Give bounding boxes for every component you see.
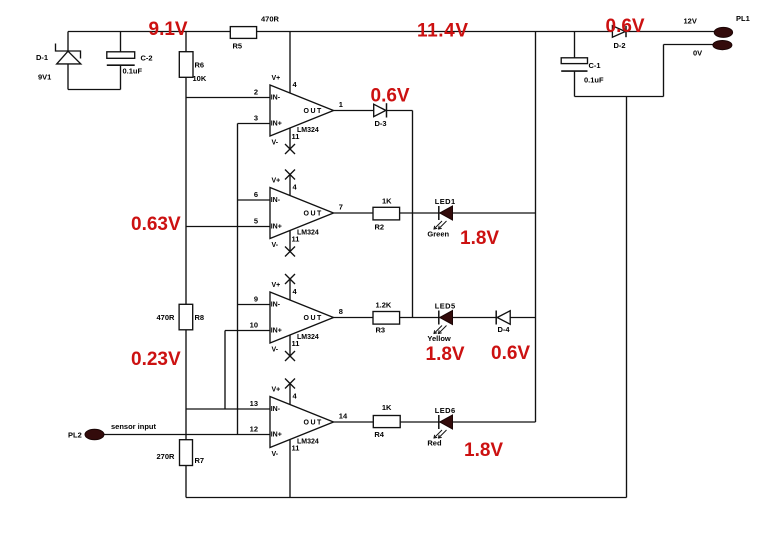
svg-text:0.6V: 0.6V (491, 343, 530, 364)
op-amp U1 unit 3 LM324 (270, 292, 334, 343)
wire sensor to pin 9 (238, 304, 271, 306)
wire zener to C2 bottom (68, 89, 121, 91)
no-connect X op3 pin11 (285, 351, 295, 361)
wire top supply rail 11.4V (68, 31, 714, 33)
svg-text:1K: 1K (382, 197, 392, 206)
svg-text:12: 12 (250, 425, 258, 434)
no-connect X op1 pin11 (285, 144, 295, 154)
svg-text:Yellow: Yellow (427, 334, 451, 343)
svg-text:7: 7 (339, 203, 343, 212)
svg-text:1: 1 (339, 100, 343, 109)
svg-text:0.1uF: 0.1uF (123, 67, 143, 76)
svg-text:IN+: IN+ (271, 121, 282, 128)
svg-text:LED5: LED5 (435, 302, 456, 311)
svg-text:0.1uF: 0.1uF (584, 76, 604, 85)
svg-text:OUT: OUT (304, 211, 323, 218)
resistor R2 1K (373, 207, 400, 220)
svg-text:3: 3 (254, 114, 258, 123)
wire 0V to PL1 pin (664, 44, 714, 46)
svg-text:IN-: IN- (271, 95, 281, 102)
wire ground vertical (626, 97, 628, 498)
svg-text:5: 5 (254, 217, 258, 226)
wire pin10 link vertical (224, 331, 226, 410)
resistor R8 470R (179, 304, 193, 330)
wire node 0.23V to pin 10 (225, 330, 270, 332)
wire row4 op4 out to LED rail (334, 421, 536, 423)
svg-text:6: 6 (254, 190, 258, 199)
wire sensor vertical bus (237, 124, 239, 435)
svg-text:LM324: LM324 (297, 439, 319, 446)
diode D-2 triangle (612, 26, 625, 37)
resistor R5 470R (230, 27, 256, 39)
svg-text:11: 11 (292, 339, 300, 348)
wire sensor input to pin 12 (104, 434, 270, 436)
svg-text:LM324: LM324 (297, 334, 319, 341)
capacitor C-2 bottom plate (107, 64, 135, 66)
svg-text:R8: R8 (195, 313, 205, 322)
svg-text:1K: 1K (382, 403, 392, 412)
svg-text:Red: Red (427, 439, 442, 448)
svg-text:IN+: IN+ (271, 432, 282, 439)
svg-text:0.6V: 0.6V (371, 86, 410, 107)
resistor R4 1K (373, 416, 400, 428)
wire LED anode rail (535, 32, 537, 423)
svg-text:R4: R4 (374, 430, 384, 439)
svg-text:11: 11 (292, 444, 300, 453)
diode D-3 cathode bar (386, 103, 388, 117)
wire node 0.63V to pin 5 (186, 226, 270, 228)
svg-text:D-4: D-4 (498, 325, 511, 334)
no-connect X op2 pin11 (285, 247, 295, 257)
svg-text:IN-: IN- (271, 302, 281, 309)
LED1 green (434, 206, 453, 229)
svg-text:R7: R7 (195, 456, 205, 465)
wire D3 drop vertical (412, 111, 414, 318)
wire C2 bottom riser (120, 65, 122, 89)
wire 0V horizontal below C1 (575, 96, 664, 98)
op-amp U1 unit 1 LM324 (270, 85, 334, 136)
svg-text:LM324: LM324 (297, 127, 319, 134)
svg-text:V-: V- (272, 451, 279, 458)
no-connect X op4 pin4 (285, 379, 295, 389)
svg-text:IN-: IN- (271, 406, 281, 413)
svg-text:V+: V+ (272, 178, 281, 185)
wire sensor to pin 3 (238, 123, 271, 125)
svg-text:R6: R6 (195, 61, 205, 70)
svg-text:470R: 470R (261, 15, 280, 24)
svg-text:LM324: LM324 (297, 230, 319, 237)
svg-text:1.2K: 1.2K (376, 301, 392, 310)
wire divider R6 to R8 (185, 77, 187, 304)
svg-text:13: 13 (250, 399, 258, 408)
wire op1 out to D3 (334, 110, 374, 112)
wire op3 pin4 stub (289, 279, 291, 300)
svg-text:V-: V- (272, 242, 279, 249)
wire 0V riser (663, 45, 665, 97)
svg-text:V+: V+ (272, 75, 281, 82)
capacitor C-2 top plate (107, 52, 135, 59)
svg-text:OUT: OUT (304, 315, 323, 322)
svg-text:sensor input: sensor input (111, 422, 157, 431)
no-connect X op3 pin4 (285, 274, 295, 284)
svg-text:Green: Green (427, 230, 449, 239)
svg-text:10K: 10K (193, 74, 207, 83)
svg-text:LED1: LED1 (435, 197, 456, 206)
svg-text:IN-: IN- (271, 197, 281, 204)
svg-text:1.8V: 1.8V (464, 440, 503, 461)
svg-text:8: 8 (339, 307, 343, 316)
wire rail to C1 (574, 32, 576, 58)
connector PL1 12V pin (714, 27, 732, 37)
op-amp U1 unit 4 LM324 (270, 397, 334, 448)
svg-text:C-2: C-2 (141, 54, 153, 63)
wire C1 bottom drop (574, 71, 576, 96)
svg-text:0.23V: 0.23V (131, 349, 181, 370)
svg-text:LED6: LED6 (435, 406, 456, 415)
svg-text:0.6V: 0.6V (606, 16, 645, 37)
svg-text:1.8V: 1.8V (426, 344, 465, 365)
svg-text:10: 10 (250, 321, 258, 330)
svg-text:PL2: PL2 (68, 431, 82, 440)
resistor R6 10K (179, 52, 193, 78)
svg-text:R5: R5 (233, 42, 243, 51)
svg-text:PL1: PL1 (736, 14, 750, 23)
wire op4 pin4 stub (289, 384, 291, 405)
svg-text:OUT: OUT (304, 108, 323, 115)
svg-text:D-2: D-2 (614, 41, 626, 50)
wire R7 to ground rail (185, 466, 187, 498)
svg-text:C-1: C-1 (589, 61, 601, 70)
svg-text:IN+: IN+ (271, 224, 282, 231)
wire C2 top riser (120, 32, 122, 53)
svg-text:1.8V: 1.8V (460, 228, 499, 249)
svg-text:R2: R2 (375, 223, 385, 232)
svg-text:D-3: D-3 (375, 119, 387, 128)
no-connect X op2 pin4 (285, 170, 295, 180)
wire op2 pin4 stub (289, 175, 291, 196)
zener D-1 triangle (57, 51, 81, 64)
svg-text:R3: R3 (376, 326, 386, 335)
wire divider R8 to R7 (185, 330, 187, 440)
wire rail to R6 (185, 32, 187, 52)
connector PL1 0V pin (713, 41, 732, 50)
diode D-3 triangle (374, 104, 386, 116)
wire D3 to drop corner (387, 110, 413, 112)
zener diode D-1 9V1 (56, 44, 81, 59)
wire row3 op3 out to LED rail (334, 317, 536, 319)
wire zener bottom drop (67, 64, 69, 90)
connector PL2 sensor input pin (85, 429, 104, 439)
svg-text:11: 11 (292, 235, 300, 244)
svg-text:0.63V: 0.63V (131, 214, 181, 235)
wire sensor to pin 6 (238, 199, 271, 201)
svg-text:270R: 270R (157, 452, 176, 461)
wire node 0.23V to pin 13 (186, 408, 270, 410)
svg-text:IN+: IN+ (271, 328, 282, 335)
op-amp U1 unit 2 LM324 (270, 188, 334, 239)
wire op3 pin11 stub (289, 335, 291, 356)
wire zener top drop (67, 32, 69, 52)
wire op1 pin11 stub (289, 128, 291, 149)
wire node 0.63V to pin 2 (186, 97, 270, 99)
diode D-4 (495, 311, 497, 325)
capacitor C-1 bottom plate (561, 70, 587, 72)
svg-text:9V1: 9V1 (38, 73, 51, 82)
wire op1 pin4 to rail (289, 32, 291, 94)
svg-text:V-: V- (272, 347, 279, 354)
svg-text:470R: 470R (157, 313, 176, 322)
svg-text:V+: V+ (272, 282, 281, 289)
resistor R3 1.2K (373, 312, 400, 325)
svg-text:2: 2 (254, 88, 258, 97)
svg-text:OUT: OUT (304, 420, 323, 427)
capacitor C-1 top plate (561, 58, 587, 64)
svg-text:12V: 12V (684, 17, 697, 26)
svg-text:9.1V: 9.1V (149, 19, 188, 40)
svg-text:9: 9 (254, 295, 258, 304)
svg-text:V-: V- (272, 140, 279, 147)
wire bottom ground rail (186, 497, 627, 499)
wire op4 pin11 to ground rail (289, 440, 291, 498)
svg-text:11.4V: 11.4V (417, 21, 469, 42)
svg-text:14: 14 (339, 412, 348, 421)
svg-text:11: 11 (292, 132, 300, 141)
LED5 yellow (434, 311, 453, 334)
diode D-2 cathode bar (625, 26, 627, 37)
wire op2 pin11 stub (289, 230, 291, 251)
wire row2 op2 out to LED rail (334, 212, 536, 214)
svg-text:0V: 0V (693, 49, 702, 58)
svg-text:D-1: D-1 (36, 53, 48, 62)
LED6 red (434, 415, 453, 438)
svg-text:V+: V+ (272, 387, 281, 394)
resistor R7 270R (180, 440, 193, 466)
